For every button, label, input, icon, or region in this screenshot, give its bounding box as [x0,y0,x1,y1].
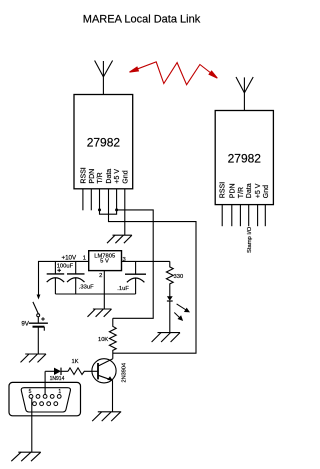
wire U1 RSSI stub [82,189,84,211]
svg-text:5: 5 [29,389,32,395]
wire input rail [39,261,89,296]
ground (battery) [21,354,47,362]
junction dot on +5V [115,208,118,211]
ground (Q1 emitter) [92,412,121,421]
svg-text:+5 V: +5 V [114,169,121,184]
svg-text:T/R: T/R [97,172,104,183]
U2 pin stubs [222,205,265,227]
wire +5V rail [113,210,153,318]
svg-text:Data: Data [246,183,253,198]
svg-text:330: 330 [174,274,184,280]
svg-text:2N3904: 2N3904 [122,363,128,383]
svg-text:Gnd: Gnd [263,185,270,198]
svg-text:RSSI: RSSI [80,167,87,183]
antenna ANT1 (left) [95,61,113,95]
svg-text:10K: 10K [98,337,108,343]
wire U1 T/R to +5V [100,189,117,214]
switch S1 [37,295,41,300]
svg-text:T/R: T/R [238,187,245,198]
resistor R2 10K [109,318,116,359]
wire J1 pin3 to diode [44,371,46,394]
svg-text:3: 3 [123,257,126,263]
capacitor C1 100uF [47,261,64,294]
LED D1 [167,296,173,332]
svg-text:1: 1 [58,389,61,395]
resistor R1 330 [166,261,173,296]
RF link zigzag arrow [130,62,218,85]
svg-text:PDN: PDN [89,169,96,184]
svg-text:1N914: 1N914 [50,376,65,382]
svg-text:Stamp I/O: Stamp I/O [247,226,253,253]
junction dot on T/R [98,208,101,211]
svg-text:2: 2 [99,273,102,279]
J1 pin 8 [40,402,44,406]
wire output rail to 330 branch [122,260,170,262]
wire capacitor ground rail [55,293,135,295]
svg-text:27982: 27982 [228,151,262,165]
D1 light arrows [174,304,189,320]
ground (U3 pin2) [88,309,112,317]
wire J1 pin5 to ground [31,398,33,452]
svg-text:.33uF: .33uF [79,285,94,291]
RF module U2 (27982) [215,111,273,205]
capacitor C3 .1uF [125,261,146,294]
svg-text:.1uF: .1uF [117,286,129,292]
B1 polarity + [41,317,45,321]
J1 pin 7 [47,402,51,406]
J1 pin 6 [54,402,58,406]
battery B1 9V [29,317,48,354]
wire U1 Data to transistor collector [109,189,197,353]
C1 polarity + [57,269,61,273]
svg-text:+10V: +10V [61,255,76,262]
svg-text:+5 V: +5 V [255,183,262,198]
svg-text:1: 1 [83,256,86,262]
resistor R3 1K [68,368,92,375]
svg-text:27982: 27982 [87,135,121,149]
svg-text:5 V: 5 V [100,259,109,265]
wire U3 pin2 to ground [103,271,105,309]
svg-text:1K: 1K [71,359,78,365]
svg-text:Gnd: Gnd [122,170,129,183]
ground (J1) [11,452,40,461]
svg-text:PDN: PDN [229,183,236,198]
J1 pin 3 [43,395,47,399]
svg-text:9V: 9V [21,321,29,328]
capacitor C2 .33uF [67,261,85,294]
J1 pin 9 [33,402,37,406]
wire U1 PDN stub [90,189,92,211]
connector J1 DB9 [9,382,81,415]
J1 pin 2 [50,395,54,399]
wire U1 Gnd [124,189,126,235]
J1 pin 4 [36,395,40,399]
transistor Q1 2N3904 [92,359,116,412]
regulator U3 LM7805 [89,251,122,271]
J1 pin 5 [29,395,33,399]
svg-text:Data: Data [106,169,113,184]
RF module U1 (27982) [74,95,133,189]
svg-text:MAREA Local Data Link: MAREA Local Data Link [83,14,201,26]
antenna ANT2 (right) [236,77,253,111]
ground (U1 Gnd) [107,235,132,243]
J1 pin 1 [57,395,61,399]
diode D2 1N914 [45,368,68,375]
svg-text:RSSI: RSSI [220,182,227,198]
ground (LED) [152,333,180,342]
